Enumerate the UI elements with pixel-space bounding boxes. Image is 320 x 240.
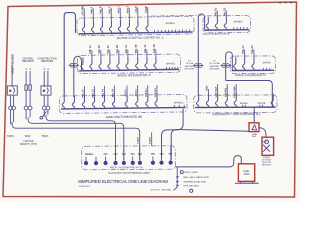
svg-text:NTS-01-001: NTS-01-001 <box>79 186 91 188</box>
svg-text:TX: TX <box>213 61 216 63</box>
svg-text:UTILITY SOURCE: UTILITY SOURCE <box>12 54 15 74</box>
svg-text:480: 480 <box>160 153 165 156</box>
svg-text:PNL B: PNL B <box>99 6 102 13</box>
svg-text:AHU 1: AHU 1 <box>117 6 120 14</box>
svg-text:240: 240 <box>131 153 136 156</box>
svg-text:SPARE: SPARE <box>258 102 266 105</box>
svg-text:O: O <box>43 68 45 71</box>
svg-text:MED. GALV WATER PIPE: MED. GALV WATER PIPE <box>183 176 209 179</box>
svg-text:480/208V: 480/208V <box>185 66 195 68</box>
svg-text:A: A <box>30 68 32 71</box>
svg-text:PNL 2B: PNL 2B <box>116 45 119 54</box>
svg-text:ELEVATOR SWITCHBOARD (ASB): ELEVATOR SWITCHBOARD (ASB) <box>108 171 149 175</box>
svg-text:EM1: EM1 <box>206 85 209 91</box>
svg-text:SPACE INTEGRATOR 'D': SPACE INTEGRATOR 'D' <box>235 73 266 77</box>
svg-text:RECORDS: RECORDS <box>22 60 34 63</box>
svg-text:75 KVA: 75 KVA <box>186 62 194 65</box>
svg-text:SPARES: SPARES <box>233 20 243 23</box>
svg-text:PNL 4B: PNL 4B <box>153 44 156 53</box>
svg-text:PNL 2A: PNL 2A <box>107 45 110 54</box>
svg-text:PNL 1A: PNL 1A <box>89 45 92 54</box>
svg-text:480/208V: 480/208V <box>210 66 220 68</box>
svg-text:400AT: 400AT <box>262 141 268 144</box>
svg-text:480: 480 <box>151 153 156 156</box>
svg-text:CHLR 1: CHLR 1 <box>145 88 148 97</box>
svg-text:PNL 3A: PNL 3A <box>125 45 128 54</box>
svg-text:SPARES: SPARES <box>165 22 175 25</box>
svg-text:AHU 2: AHU 2 <box>135 89 138 97</box>
svg-text:PNL P1: PNL P1 <box>102 88 105 97</box>
svg-text:CHLR 2: CHLR 2 <box>154 88 157 97</box>
svg-text:A: A <box>47 68 49 71</box>
svg-text:ATS: ATS <box>252 135 257 138</box>
svg-text:PNL 4A: PNL 4A <box>144 44 147 53</box>
svg-text:EM PNL: EM PNL <box>224 87 227 97</box>
svg-text:EMERGENCY SWITCHBOARD (E): EMERGENCY SWITCHBOARD (E) <box>212 112 259 116</box>
svg-text:PNL E2: PNL E2 <box>223 7 226 16</box>
svg-text:TMCS: TMCS <box>7 135 14 138</box>
svg-text:SPACE INTEGRATOR 'B': SPACE INTEGRATOR 'B' <box>202 33 230 36</box>
svg-text:AHU 1: AHU 1 <box>124 89 127 97</box>
svg-text:SPARE: SPARE <box>240 102 248 105</box>
svg-text:MECH. SYSTEMS PNL NO. M: MECH. SYSTEMS PNL NO. M <box>110 166 143 169</box>
svg-text:EXIST. GRND: EXIST. GRND <box>184 172 198 174</box>
svg-text:SPARE: SPARE <box>85 153 93 156</box>
svg-text:TX: TX <box>188 61 191 63</box>
svg-text:O: O <box>25 68 27 71</box>
svg-text:TANK: TANK <box>243 173 250 176</box>
svg-text:SPACE INTEGRATOR 'A': SPACE INTEGRATOR 'A' <box>117 73 152 77</box>
svg-text:MAIN SWITCHBOARD (M): MAIN SWITCHBOARD (M) <box>106 115 142 119</box>
svg-text:LTG PNL: LTG PNL <box>81 5 84 16</box>
svg-text:240: 240 <box>104 153 109 156</box>
svg-text:SPARES: SPARES <box>174 101 184 104</box>
svg-text:PNL P2: PNL P2 <box>112 88 115 97</box>
svg-text:CHLR: CHLR <box>135 6 138 13</box>
svg-text:2 AWG: 2 AWG <box>137 137 140 144</box>
svg-text:PNL E1: PNL E1 <box>214 7 217 16</box>
svg-text:PUMP: PUMP <box>145 5 148 12</box>
svg-text:480/277V (TYP): 480/277V (TYP) <box>20 143 37 146</box>
svg-text:PNL D2: PNL D2 <box>251 45 254 54</box>
svg-text:PNL D1: PNL D1 <box>242 45 245 54</box>
svg-text:(3PH,4W): (3PH,4W) <box>209 69 219 71</box>
svg-text:TMCS: TMCS <box>42 135 49 138</box>
svg-text:WTR GROUND: WTR GROUND <box>183 186 199 188</box>
svg-text:112.5 KVA: 112.5 KVA <box>209 62 220 65</box>
svg-text:SPARES: SPARES <box>166 62 176 65</box>
svg-text:PNL 1B: PNL 1B <box>98 45 101 54</box>
svg-text:3/4 IN. FL. GROUND: 3/4 IN. FL. GROUND <box>151 189 172 191</box>
svg-text:LIFE SAF: LIFE SAF <box>215 86 218 97</box>
svg-text:FIRE PMP: FIRE PMP <box>233 86 236 98</box>
svg-text:4 AWG: 4 AWG <box>149 137 152 144</box>
svg-text:GEN SET: GEN SET <box>262 165 272 167</box>
svg-text:MOTOR CONTROL CENTER NO. 1: MOTOR CONTROL CENTER NO. 1 <box>117 35 164 40</box>
svg-text:AHU 2: AHU 2 <box>126 5 129 13</box>
svg-text:SIMPLIFIED ELECTRICAL ONE LINE: SIMPLIFIED ELECTRICAL ONE LINE DIAGRAM <box>78 179 168 184</box>
svg-text:240: 240 <box>138 153 143 156</box>
svg-text:GENERATIONAL FUEL: GENERATIONAL FUEL <box>183 181 207 184</box>
svg-text:SERVICES: SERVICES <box>41 60 53 63</box>
svg-text:SPARE: SPARE <box>263 61 271 64</box>
svg-text:PNL L1: PNL L1 <box>82 89 85 98</box>
svg-text:PNL 3B: PNL 3B <box>135 44 138 53</box>
svg-text:PNL A: PNL A <box>90 6 93 13</box>
svg-text:PNL L2: PNL L2 <box>92 89 95 98</box>
svg-text:PNL C: PNL C <box>108 6 111 13</box>
svg-text:TADF: TADF <box>24 135 31 138</box>
svg-text:(3PH,3W): (3PH,3W) <box>184 69 194 71</box>
